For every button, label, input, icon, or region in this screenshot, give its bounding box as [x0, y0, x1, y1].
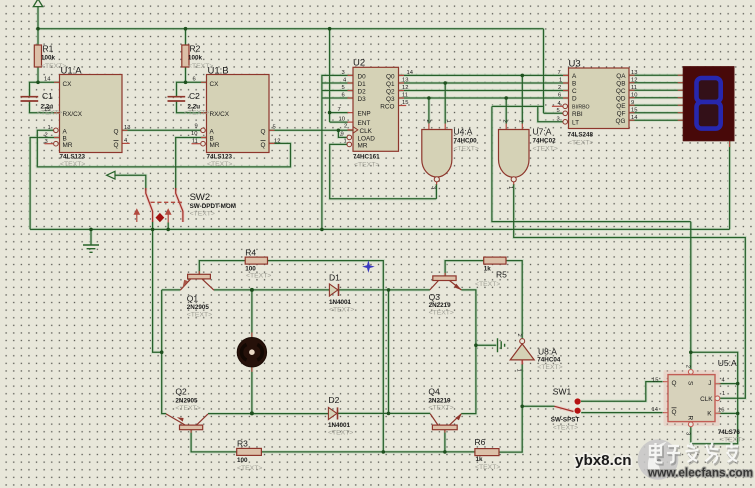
svg-text:2N2219: 2N2219	[428, 398, 451, 405]
svg-text:<TEXT>: <TEXT>	[329, 307, 354, 314]
svg-text:6: 6	[558, 92, 561, 98]
svg-text:1k: 1k	[476, 456, 484, 463]
capacitor C1	[21, 97, 39, 101]
svg-text:U3: U3	[569, 59, 581, 70]
svg-text:3: 3	[342, 70, 345, 76]
svg-text:R4: R4	[245, 248, 256, 258]
svg-text:QC: QC	[616, 88, 626, 95]
svg-text:C: C	[572, 88, 577, 95]
svg-text:U5:A: U5:A	[718, 358, 737, 368]
svg-text:12: 12	[402, 85, 408, 91]
svg-text:6: 6	[342, 92, 345, 98]
svg-text:13: 13	[124, 125, 130, 131]
svg-text:5: 5	[557, 108, 560, 114]
svg-text:2N2905: 2N2905	[175, 398, 198, 405]
resistor R1	[34, 45, 41, 67]
pin stubs U2 left	[347, 75, 353, 144]
svg-text:14: 14	[407, 70, 414, 76]
pin stubs U4 U7 gates	[429, 124, 522, 185]
svg-text:5: 5	[342, 85, 345, 91]
pin stubs U2 right	[399, 75, 405, 98]
op IC U1:A 74LS123	[60, 75, 123, 153]
svg-text:1N4001: 1N4001	[328, 422, 351, 429]
U3 BI/RBO bubble	[563, 104, 568, 109]
svg-text:ybx8.cn: ybx8.cn	[575, 452, 632, 469]
svg-text:<TEXT>: <TEXT>	[354, 162, 379, 169]
svg-text:MR: MR	[358, 142, 368, 149]
svg-text:Q: Q	[261, 128, 266, 135]
svg-text:1: 1	[722, 391, 725, 397]
watermark chinese glyphs	[651, 444, 739, 465]
svg-text:2: 2	[516, 334, 522, 337]
svg-text:CX: CX	[63, 81, 73, 88]
svg-text:2: 2	[344, 124, 347, 130]
svg-text:A: A	[572, 73, 577, 80]
svg-text:10: 10	[191, 131, 197, 137]
ground symbol right rotated	[498, 338, 505, 352]
svg-text:7: 7	[338, 107, 341, 113]
svg-text:74LS123: 74LS123	[207, 154, 233, 161]
svg-text:<TEXT>: <TEXT>	[328, 430, 353, 437]
IC U1:B 74LS123	[207, 75, 270, 153]
svg-text:<TEXT>: <TEXT>	[184, 110, 209, 117]
ground symbol left	[83, 245, 99, 252]
U1A MR bubble	[54, 141, 59, 146]
resistor R2	[182, 45, 189, 67]
svg-text:B: B	[572, 81, 576, 88]
svg-text:<TEXT>: <TEXT>	[568, 140, 593, 147]
diode D1 1N4001	[329, 284, 338, 296]
pin stubs U5	[663, 369, 721, 427]
svg-text:QD: QD	[616, 95, 626, 102]
svg-text:2: 2	[685, 365, 691, 368]
svg-text:74HC04: 74HC04	[537, 357, 561, 364]
svg-text:14: 14	[631, 115, 638, 121]
svg-text:D2: D2	[329, 395, 340, 405]
SW2 diamond marker	[156, 213, 165, 222]
svg-text:9: 9	[195, 124, 198, 130]
svg-text:A: A	[210, 128, 215, 135]
svg-text:U2: U2	[353, 58, 365, 69]
svg-text:10: 10	[339, 116, 345, 122]
pin stubs U1A	[54, 82, 128, 137]
JK flipflop U5:A 74LS76	[668, 375, 715, 422]
U3 BI/RBO stub	[552, 105, 563, 107]
svg-text:RCO: RCO	[380, 104, 394, 111]
svg-text:R: R	[687, 416, 694, 421]
svg-text:3: 3	[557, 116, 560, 122]
svg-text:R2: R2	[190, 44, 201, 54]
svg-text:Q: Q	[114, 142, 119, 149]
SW2 actuator arrow 1	[134, 210, 139, 223]
resistor R3	[237, 448, 262, 455]
svg-text:MR: MR	[210, 142, 220, 149]
blue marker	[362, 260, 375, 273]
svg-text:S: S	[687, 381, 694, 385]
U2 MR bubble	[347, 142, 352, 147]
svg-text:12: 12	[274, 139, 280, 145]
svg-text:100: 100	[237, 457, 248, 464]
U4 output bubble	[434, 177, 439, 182]
svg-text:Q3: Q3	[386, 96, 395, 103]
svg-text:1: 1	[48, 125, 51, 131]
svg-text:Q: Q	[114, 128, 119, 135]
svg-text:12: 12	[631, 77, 637, 83]
svg-text:SW1: SW1	[553, 387, 572, 397]
svg-text:14: 14	[652, 407, 659, 413]
svg-text:CLK: CLK	[700, 396, 713, 403]
svg-text:MR: MR	[63, 142, 73, 149]
svg-text:R6: R6	[475, 437, 486, 447]
svg-text:<TEXT>: <TEXT>	[60, 161, 85, 168]
SW1 contact dots	[575, 398, 581, 404]
svg-text:1N4001: 1N4001	[329, 299, 352, 306]
svg-text:74HC02: 74HC02	[533, 138, 557, 145]
svg-text:D2: D2	[358, 88, 367, 95]
svg-text:<TEXT>: <TEXT>	[429, 310, 454, 317]
svg-text:6: 6	[193, 77, 196, 83]
pin stubs U1B	[201, 82, 275, 143]
svg-text:Q: Q	[261, 142, 266, 149]
svg-text:1k: 1k	[484, 266, 492, 273]
svg-text:K: K	[707, 411, 712, 418]
svg-text:<TEXT>: <TEXT>	[428, 405, 453, 412]
svg-text:QE: QE	[616, 103, 625, 110]
U5 S bubble	[688, 370, 693, 375]
svg-text:BI/RBO: BI/RBO	[572, 105, 590, 111]
svg-text:Q: Q	[672, 380, 677, 387]
resistor R6	[475, 449, 499, 456]
svg-text:<TEXT>: <TEXT>	[553, 425, 578, 432]
svg-text:SW-SPST: SW-SPST	[551, 416, 580, 423]
svg-text:QA: QA	[616, 73, 626, 80]
transistor Q2 2N2905	[166, 414, 208, 430]
svg-text:<TEXT>: <TEXT>	[454, 146, 479, 153]
U1A MR stub	[45, 143, 54, 145]
svg-text:RX/CX: RX/CX	[210, 111, 230, 118]
inverter U8:A 74HC04	[510, 344, 534, 360]
svg-text:QG: QG	[616, 118, 626, 125]
svg-text:U7:A: U7:A	[533, 127, 552, 137]
svg-text:D0: D0	[358, 73, 367, 80]
svg-text:100k: 100k	[188, 55, 203, 62]
svg-text:11: 11	[631, 85, 637, 91]
svg-text:<TEXT>: <TEXT>	[187, 312, 212, 319]
svg-text:U8:A: U8:A	[538, 347, 557, 357]
svg-text:74HC00: 74HC00	[454, 138, 478, 145]
svg-text:CX: CX	[210, 81, 220, 88]
svg-text:<TEXT>: <TEXT>	[246, 273, 271, 280]
svg-text:15: 15	[652, 378, 658, 384]
svg-text:QB: QB	[616, 80, 625, 87]
svg-text:R1: R1	[43, 44, 54, 54]
svg-text:<TEXT>: <TEXT>	[537, 364, 562, 371]
svg-text:7: 7	[191, 107, 194, 113]
svg-text:<TEXT>: <TEXT>	[207, 161, 232, 168]
svg-text:1: 1	[559, 77, 562, 83]
SW2 input terminal arrow	[107, 171, 115, 179]
7seg digit 8 top loop	[697, 78, 721, 102]
svg-text:A: A	[63, 128, 68, 135]
svg-text:7: 7	[558, 70, 561, 76]
svg-text:<TEXT>: <TEXT>	[533, 146, 558, 153]
svg-text:U1:A: U1:A	[61, 66, 83, 77]
svg-text:74HC161: 74HC161	[353, 154, 380, 161]
svg-text:C1: C1	[42, 91, 53, 101]
capacitor C2	[168, 97, 186, 101]
svg-text:15: 15	[44, 107, 50, 113]
svg-text:3: 3	[430, 186, 436, 189]
svg-text:<TEXT>: <TEXT>	[475, 281, 500, 288]
svg-text:10: 10	[631, 92, 637, 98]
svg-text:J: J	[708, 380, 711, 387]
svg-text:<TEXT>: <TEXT>	[237, 465, 262, 472]
svg-text:1: 1	[507, 186, 513, 189]
motor M	[237, 338, 266, 367]
U7 output bubble	[511, 177, 516, 182]
transistor Q3 2N2219	[430, 276, 462, 290]
svg-text:11: 11	[192, 139, 198, 145]
pin stubs display	[678, 75, 730, 147]
svg-text:Q2: Q2	[386, 88, 395, 95]
svg-text:13: 13	[631, 70, 637, 76]
svg-text:Q: Q	[672, 409, 677, 416]
svg-text:2: 2	[425, 120, 431, 123]
svg-text:LT: LT	[572, 119, 579, 126]
resistor R5	[484, 257, 506, 264]
svg-text:16: 16	[718, 407, 724, 413]
SW2 actuator arrow 2	[166, 210, 171, 223]
decoder U3 74LS248	[569, 68, 630, 129]
U5 CLK bubble	[715, 396, 720, 401]
NOR gate U7:A 74HC02	[499, 130, 530, 178]
svg-text:<TEXT>: <TEXT>	[190, 210, 215, 217]
svg-text:100: 100	[245, 266, 256, 273]
svg-text:100k: 100k	[41, 55, 56, 62]
svg-text:D1: D1	[329, 273, 340, 283]
svg-text:1: 1	[518, 120, 524, 123]
svg-text:D1: D1	[358, 81, 367, 88]
svg-text:ENT: ENT	[358, 120, 371, 127]
svg-text:R5: R5	[496, 270, 507, 280]
pin stubs U3 right	[629, 75, 635, 120]
svg-text:U1:B: U1:B	[208, 66, 229, 77]
svg-text:74LS248: 74LS248	[568, 132, 594, 139]
svg-text:D: D	[572, 96, 577, 103]
svg-text:2: 2	[45, 133, 48, 139]
svg-text:SW-DPDT-MOM: SW-DPDT-MOM	[190, 203, 236, 210]
svg-text:www.elecfans.com: www.elecfans.com	[647, 466, 753, 480]
U8 output bubble	[520, 339, 525, 344]
transistor Q4 2N2219	[430, 413, 462, 429]
svg-text:Q1: Q1	[187, 294, 199, 304]
U1A A bubble	[54, 128, 59, 133]
transistor Q1 2N2905	[180, 274, 214, 290]
svg-text:1: 1	[344, 139, 347, 145]
U5 R bubble	[688, 422, 693, 427]
svg-text:D3: D3	[358, 96, 367, 103]
svg-text:14: 14	[44, 77, 51, 83]
red element halos	[146, 188, 574, 412]
svg-text:CLK: CLK	[360, 128, 373, 135]
U2 CLK chevron	[353, 127, 358, 134]
svg-text:15: 15	[402, 100, 408, 106]
svg-text:RX/CX: RX/CX	[63, 111, 83, 118]
svg-text:2: 2	[502, 120, 508, 123]
svg-text:SW2: SW2	[190, 192, 211, 203]
svg-text:Q4: Q4	[428, 387, 440, 397]
svg-text:Q1: Q1	[386, 81, 395, 88]
svg-text:<TEXT>: <TEXT>	[475, 464, 500, 471]
7seg display body	[683, 67, 734, 141]
svg-text:11: 11	[402, 92, 408, 98]
svg-text:Q3: Q3	[429, 292, 441, 302]
junction dots	[36, 27, 40, 31]
svg-text:U4:A: U4:A	[454, 127, 473, 137]
svg-text:QF: QF	[617, 110, 626, 117]
svg-text:1: 1	[445, 120, 451, 123]
svg-text:Q2: Q2	[175, 387, 187, 397]
svg-text:74LS123: 74LS123	[60, 154, 86, 161]
svg-text:ENP: ENP	[358, 111, 371, 118]
U3 RBI bubble	[563, 111, 568, 116]
diode D2 1N4001	[328, 407, 337, 419]
svg-text:3: 3	[45, 139, 48, 145]
svg-text:2N2219: 2N2219	[429, 302, 452, 309]
transistor base stubs	[191, 271, 445, 433]
counter U2 74HC161	[353, 67, 399, 151]
svg-text:15: 15	[631, 107, 637, 113]
U1A Qbar stub	[122, 142, 130, 144]
SW2 dashed link	[151, 201, 184, 203]
U1B MR bubble	[201, 141, 206, 146]
svg-text:1: 1	[515, 369, 521, 372]
svg-text:<TEXT>: <TEXT>	[175, 405, 200, 412]
svg-text:9: 9	[631, 100, 634, 106]
U2 LOAD bubble	[347, 135, 352, 140]
NAND gate U4:A 74HC00	[422, 130, 452, 178]
svg-text:74LS76: 74LS76	[718, 429, 741, 436]
JK flipflop U5:A 74LS76 highlight glow	[664, 370, 720, 426]
svg-text:RBI: RBI	[572, 111, 583, 118]
svg-text:Q0: Q0	[386, 73, 395, 80]
red switch blades core	[146, 188, 574, 412]
svg-text:R3: R3	[237, 439, 248, 449]
U1B A bubble	[201, 128, 206, 133]
power symbol top	[33, 0, 43, 7]
U2 RCO stub	[399, 105, 407, 107]
watermark logo circle	[638, 439, 679, 480]
svg-text:2N2905: 2N2905	[187, 304, 210, 311]
svg-text:5: 5	[273, 125, 276, 131]
svg-text:3: 3	[685, 432, 691, 435]
pin stubs U3 left	[563, 75, 569, 98]
svg-text:<TEXT>: <TEXT>	[720, 437, 745, 444]
svg-text:2: 2	[558, 85, 561, 91]
svg-text:LOAD: LOAD	[358, 135, 376, 142]
U3 LT bubble	[563, 120, 568, 125]
resistor R4	[245, 257, 267, 264]
7seg digit 8 bottom loop	[697, 102, 721, 129]
svg-text:9: 9	[341, 132, 344, 138]
U1B MR stub	[192, 143, 201, 145]
svg-text:C2: C2	[189, 91, 200, 101]
svg-text:13: 13	[402, 77, 408, 83]
